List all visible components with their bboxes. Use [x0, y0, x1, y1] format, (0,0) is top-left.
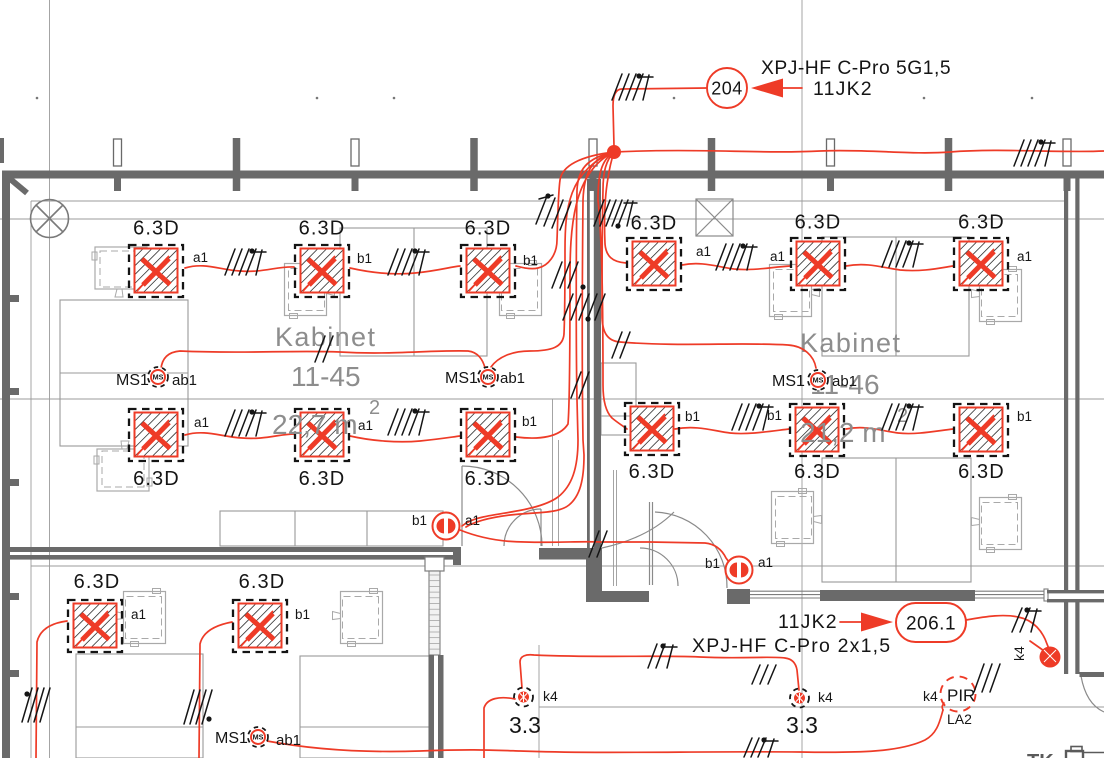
- svg-text:3.3: 3.3: [786, 712, 818, 738]
- svg-text:b1: b1: [1017, 409, 1032, 424]
- chair room 11-45 desk-mid right: [492, 261, 542, 319]
- feeder arrow 206.1: [861, 613, 893, 632]
- MS sensor 11-45 right: [478, 367, 498, 387]
- luminaire L14 6.3D: [195, 600, 336, 652]
- hatch L8-L9: [388, 408, 429, 435]
- feeder arrow 204: [751, 79, 783, 98]
- svg-text:a1: a1: [194, 415, 209, 430]
- wall tick left y=479: [10, 479, 19, 486]
- partition wall jog at corridor: [539, 548, 592, 560]
- svg-text:Kabinet: Kabinet: [800, 328, 901, 358]
- svg-text:ab1: ab1: [172, 372, 197, 389]
- hatch bundle right: [594, 200, 637, 226]
- hatch L4-L5: [716, 243, 757, 270]
- svg-text:a1: a1: [696, 244, 711, 259]
- ceiling outlet dot k4: [1040, 647, 1061, 668]
- wall tick left y=593: [10, 593, 19, 600]
- hatch bundle upper: [536, 193, 571, 230]
- grid line horizontal B: [0, 398, 1104, 400]
- grid line horizontal D: [539, 706, 1104, 708]
- exterior wall top: [8, 171, 1104, 179]
- svg-text:21,2 m: 21,2 m: [800, 417, 886, 448]
- svg-text:2: 2: [369, 397, 380, 419]
- junction dot main: [607, 145, 621, 159]
- svg-text:6.3D: 6.3D: [465, 218, 512, 240]
- chair bottom room left: [116, 589, 166, 647]
- wire luminaire L13 drop: [36, 621, 67, 758]
- wire bundle to socket sweep 1: [462, 152, 614, 526]
- chair room 11-46 bottom left: [772, 489, 822, 547]
- svg-text:TK: TK: [1027, 751, 1054, 758]
- socket outlet corridor b1 right: [726, 557, 753, 584]
- svg-text:6.3D: 6.3D: [631, 213, 678, 235]
- svg-text:ab1: ab1: [276, 732, 301, 749]
- chair bottom room right: [333, 589, 383, 647]
- luminaire L10 6.3D: [587, 403, 728, 455]
- corridor wall solid middle: [820, 590, 975, 601]
- svg-text:a1: a1: [358, 418, 373, 433]
- svg-text:b1: b1: [705, 556, 720, 571]
- hatch L2-L3: [388, 248, 429, 275]
- wire circuit 206.1 to outlet: [966, 616, 1049, 649]
- wire luminaire L10-L11: [675, 428, 789, 434]
- wire PIR drop: [942, 703, 944, 710]
- svg-text:b1: b1: [412, 513, 427, 528]
- wire k4 switch drop left: [484, 698, 515, 758]
- wire luminaire L7-L8: [185, 433, 294, 439]
- hatch L1-L2: [225, 248, 266, 275]
- wire luminaire L14 drop: [199, 622, 232, 758]
- wall cabinet room 11-46: [601, 363, 636, 435]
- hatch w7 //: [612, 332, 630, 358]
- hatch bundle low: [571, 372, 589, 398]
- svg-text:Kabinet: Kabinet: [275, 322, 376, 352]
- reference dots row: [36, 97, 39, 100]
- circuit tag 206.1: [896, 603, 966, 642]
- door leaf striped bottom-left room: [429, 571, 440, 655]
- grid line vertical C: [538, 645, 540, 758]
- luminaire L7 6.3D: [91, 409, 232, 461]
- svg-text:MS1: MS1: [215, 730, 248, 747]
- hatch corridor k4 //T: [648, 643, 677, 668]
- hatch L10-L11: [732, 403, 773, 430]
- wire bundle to socket sweep 2: [466, 152, 614, 527]
- wall column (pier) x=948.5: [945, 138, 953, 171]
- junction box symbol: [696, 199, 733, 236]
- svg-text:b1: b1: [685, 409, 700, 424]
- desk block room 11-46 bottom: [822, 458, 971, 582]
- hatch bundle mid1: [552, 262, 578, 288]
- luminaire L9 6.3D: [423, 409, 564, 461]
- svg-text:k4: k4: [1011, 646, 1027, 661]
- svg-text:k4: k4: [543, 688, 558, 704]
- svg-text:6.3D: 6.3D: [629, 461, 676, 483]
- svg-text:22,7 m: 22,7 m: [272, 409, 358, 440]
- hatch L7-L8: [225, 409, 266, 436]
- hatch MS line //: [315, 336, 333, 362]
- wall column (window mullion) x=593: [589, 139, 597, 166]
- door swing arc room 11-45 corridor: [462, 466, 542, 546]
- hatch socket wire //: [589, 531, 607, 557]
- wall column (window mullion) x=1067: [1063, 139, 1071, 166]
- door swing arc room 11-46 entrance big: [655, 512, 727, 588]
- svg-text:b1: b1: [523, 253, 538, 268]
- svg-text:6.3D: 6.3D: [299, 218, 346, 240]
- wall inner face line top: [31, 200, 1064, 202]
- circuit tag 204: [707, 68, 747, 108]
- svg-text:a1: a1: [465, 513, 480, 528]
- wire luminaire L5-L6: [846, 265, 953, 271]
- wall column (pier) x=474: [470, 138, 478, 171]
- svg-text:6.3D: 6.3D: [74, 571, 121, 593]
- window segment 1: [750, 591, 820, 598]
- svg-text:6.3D: 6.3D: [239, 571, 286, 593]
- MS sensor bottom room: [248, 727, 268, 747]
- wire luminaire L11-L12: [846, 428, 953, 434]
- wall bottom-left room separation: [10, 547, 454, 552]
- wall tick left y=295: [10, 295, 19, 302]
- svg-text:k4: k4: [923, 688, 938, 704]
- svg-text:LA2: LA2: [947, 711, 972, 727]
- chair room 11-45 desk-mid left: [285, 261, 335, 319]
- svg-text:6.3D: 6.3D: [794, 461, 841, 483]
- PIR sensor circle: [941, 677, 976, 712]
- wire bundle to luminaire row1 11-46: [605, 152, 626, 263]
- wall inner face line left: [30, 201, 32, 758]
- wire MS1 11-45 horizontal: [161, 351, 485, 369]
- door frame bottom-left room: [425, 557, 444, 571]
- svg-text:204: 204: [711, 79, 743, 99]
- TK cabinet partial: [1066, 747, 1104, 758]
- hatch 206.1 //: [1012, 607, 1041, 632]
- door swing arc small corridor: [504, 509, 541, 546]
- chair room 11-45 below desk: [94, 441, 152, 491]
- sideboard cabinet row: [220, 511, 443, 546]
- svg-text:6.3D: 6.3D: [465, 468, 512, 490]
- svg-text:a1: a1: [131, 607, 146, 622]
- wall below door bottom-left room: [429, 655, 435, 758]
- svg-text:b1: b1: [767, 408, 782, 423]
- partition wall 11-45/11-46: [587, 179, 590, 548]
- door swing arc corridor middle: [602, 512, 674, 548]
- svg-text:b1: b1: [522, 414, 537, 429]
- hatch L5-L6: [882, 240, 923, 267]
- wall column (pier) x=711.5: [708, 138, 716, 171]
- desk block room 11-45 middle: [340, 228, 487, 356]
- hatch bundle mid2: [563, 294, 605, 320]
- luminaire L2 6.3D: [257, 245, 398, 297]
- corridor wall right junction: [1047, 590, 1104, 593]
- door leaf room 11-46 entrance: [649, 502, 651, 585]
- wire luminaire L1-L2: [185, 266, 294, 272]
- wall tick left y=388: [10, 388, 19, 395]
- chair room 11-46 top right: [972, 267, 1022, 325]
- svg-text:a1: a1: [770, 249, 785, 264]
- wire luminaire L2-L3: [350, 266, 460, 274]
- desk block room 11-45 left: [60, 300, 188, 446]
- desk block bottom room left: [76, 654, 203, 758]
- wire socket to socket b1: [460, 530, 729, 562]
- wire MS1 11-45 to bundle: [491, 152, 614, 367]
- wire k4 label tick: [1030, 641, 1047, 653]
- hatch feeder 204: [612, 73, 653, 100]
- svg-text:k4: k4: [818, 689, 833, 705]
- svg-text:6.3D: 6.3D: [958, 212, 1005, 234]
- wire bundle to luminaire row2 11-46: [598, 152, 627, 429]
- wall column (pier) x=236.5: [233, 138, 241, 171]
- exterior wall left: [2, 171, 10, 758]
- k4 switch corridor right: [790, 689, 809, 708]
- svg-text:a1: a1: [758, 555, 773, 570]
- svg-text:b1: b1: [357, 251, 372, 266]
- wall column (window mullion) x=117.5: [114, 139, 122, 166]
- svg-text:PIR: PIR: [947, 686, 975, 705]
- wire main ceiling line right: [614, 150, 1104, 152]
- wire luminaire L8-L9: [350, 436, 460, 442]
- wire bundle to MS1 11-46: [602, 152, 816, 368]
- svg-text:a1: a1: [193, 250, 208, 265]
- door swing arc bottom right: [1081, 676, 1104, 712]
- svg-text:MS1: MS1: [116, 372, 149, 389]
- wire MS1 bottom to PIR: [267, 710, 943, 752]
- corridor wall block left of 11-46 door: [588, 591, 649, 602]
- wire luminaire row2 11-45 to bundle: [516, 152, 614, 438]
- hatch bottom cable: [744, 737, 778, 757]
- chair room 11-46 bottom right: [972, 495, 1022, 553]
- hatch corridor k4b ///: [752, 665, 776, 684]
- chair room 11-46 top left: [770, 262, 820, 320]
- door leaf small corridor: [540, 509, 542, 546]
- wall column (window mullion) x=830.5: [827, 139, 835, 166]
- luminaire L6 6.3D: [916, 238, 1057, 290]
- luminaire L8 6.3D: [257, 409, 398, 461]
- luminaire L12 6.3D: [916, 404, 1057, 456]
- svg-text:11JK2: 11JK2: [813, 78, 873, 100]
- svg-text:a1: a1: [1017, 249, 1032, 264]
- socket outlet corridor a1/b1: [433, 513, 460, 540]
- wall right of room 11-46: [1064, 179, 1068, 592]
- hatch main line right: [1014, 139, 1055, 166]
- grid line horizontal C: [31, 565, 1104, 567]
- MS sensor 11-45 left: [148, 367, 168, 387]
- wall column stub far left: [0, 138, 4, 163]
- column circle symbol: [31, 200, 69, 238]
- svg-text:6.3D: 6.3D: [958, 461, 1005, 483]
- wall pier right of 11-46 door: [727, 589, 750, 604]
- wire k4 switch corridor: [520, 655, 799, 690]
- svg-text:MS1: MS1: [445, 370, 478, 387]
- grid line horizontal A: [0, 218, 1104, 220]
- svg-text:ab1: ab1: [500, 370, 525, 387]
- wall corner diagonal: [9, 178, 27, 193]
- svg-text:6.3D: 6.3D: [299, 468, 346, 490]
- svg-text:b1: b1: [295, 607, 310, 622]
- svg-text:11-45: 11-45: [291, 361, 361, 392]
- wire bundle a1 to luminaire row1 11-45: [516, 152, 614, 269]
- wall tick left y=670: [10, 670, 19, 677]
- hatch L11-L12: [882, 403, 923, 430]
- luminaire L5 6.3D: [753, 238, 894, 290]
- hatch L14 drop: [184, 690, 212, 724]
- svg-text:6.3D: 6.3D: [133, 218, 180, 240]
- svg-text:11JK2: 11JK2: [778, 611, 838, 633]
- partition edge lines near door: [552, 399, 554, 546]
- svg-text:XPJ-HF C-Pro 5G1,5: XPJ-HF C-Pro 5G1,5: [761, 58, 951, 79]
- wall column (window mullion) x=355: [351, 139, 359, 166]
- svg-text:6.3D: 6.3D: [795, 212, 842, 234]
- grid line vertical B: [801, 0, 803, 758]
- luminaire L11 6.3D: [752, 404, 893, 456]
- svg-text:ab1: ab1: [832, 373, 857, 390]
- svg-text:6.3D: 6.3D: [133, 468, 180, 490]
- luminaire L3 6.3D: [423, 245, 564, 297]
- door leaf room 11-45 corridor: [461, 466, 463, 546]
- hatch PIR ///: [974, 664, 1000, 692]
- svg-text:MS1: MS1: [772, 373, 805, 390]
- k4 switch corridor left: [514, 688, 533, 707]
- desk block room 11-46 top: [822, 237, 969, 356]
- wire luminaire L4-L5: [682, 264, 790, 270]
- hatch L13 drop: [22, 688, 50, 722]
- door swing arc room 11-46 entrance small: [640, 548, 678, 586]
- wire feeder to circuit 204: [613, 88, 707, 146]
- svg-text:3.3: 3.3: [509, 712, 541, 738]
- grid line vertical A: [49, 0, 51, 758]
- svg-text:XPJ-HF C-Pro 2x1,5: XPJ-HF C-Pro 2x1,5: [692, 635, 891, 657]
- luminaire L4 6.3D: [589, 238, 730, 290]
- MS sensor 11-46: [808, 370, 828, 390]
- door post bottom-left room: [453, 547, 461, 565]
- window segment 2: [975, 589, 1048, 601]
- luminaire L13 6.3D: [30, 600, 171, 652]
- svg-text:206.1: 206.1: [906, 614, 956, 635]
- desk block bottom room right: [300, 656, 429, 758]
- chair room 11-45 top-left: [92, 247, 150, 297]
- luminaire L1 6.3D: [91, 245, 232, 297]
